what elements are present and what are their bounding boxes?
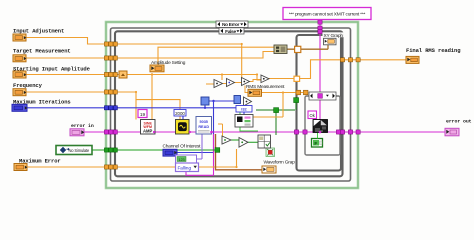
- tunnel solid rms row: [296, 90, 301, 95]
- case selector No Error: [216, 21, 248, 28]
- icon waveform graph red: [266, 148, 275, 157]
- wire triangle row links: [206, 80, 261, 93]
- svg-text:123: 123: [178, 158, 184, 162]
- while loop (outer gray border): [115, 31, 343, 176]
- case structure False (gray border): [111, 28, 351, 181]
- function triangle T6: [239, 138, 248, 148]
- svg-text:Frequency: Frequency: [13, 82, 43, 89]
- wire maximum iterations (blue): [27, 107, 236, 109]
- wire simulate boolean: [92, 149, 218, 151]
- wire blue vertical channel: [177, 101, 214, 153]
- svg-text:READ: READ: [198, 125, 209, 129]
- tunnels left border row1: [104, 42, 360, 169]
- terminal RMS Measurement: [248, 89, 262, 96]
- case structure No Error (green border): [106, 22, 358, 188]
- boolean constant F: [312, 139, 323, 148]
- tunnel ring xy cluster: [294, 46, 308, 94]
- svg-text:Ok: Ok: [310, 113, 316, 118]
- terminal Starting Input Amplitude: [13, 71, 26, 78]
- svg-text:error in: error in: [71, 123, 94, 129]
- terminal Input Adjustment: [13, 34, 26, 41]
- terminal Final RMS reading: [406, 56, 419, 63]
- function triangle T1: [214, 80, 223, 88]
- junction dots orange: [135, 43, 284, 168]
- wire F constant stub: [317, 133, 319, 139]
- terminal Frequency: [13, 89, 26, 96]
- svg-text:2000: 2000: [175, 111, 185, 116]
- terminal XY Graph: [324, 38, 337, 45]
- tunnels final rms right: [340, 58, 344, 62]
- terminal Waveform Graph: [262, 166, 276, 173]
- wire waveform brown: [216, 134, 263, 170]
- svg-text:XY Graph: XY Graph: [324, 33, 344, 39]
- terminal Maximum Iterations (I32): [12, 104, 27, 111]
- junction dot blue: [204, 100, 215, 109]
- svg-text:I32: I32: [241, 107, 247, 112]
- function triangle T4: [261, 75, 269, 83]
- wire input adjustment (orange): [26, 38, 242, 45]
- terminal error out: [445, 128, 459, 136]
- inner case selector: [309, 92, 336, 100]
- function triangle T7 blue row: [244, 97, 252, 106]
- numeric conversion box blue: [236, 106, 252, 113]
- svg-text:No Simulate: No Simulate: [69, 148, 91, 153]
- tunnels blue row: [104, 106, 117, 110]
- constant 2000: [174, 110, 186, 117]
- svg-text:Waveform Grap: Waveform Grap: [264, 159, 296, 165]
- tunnels row3: [104, 72, 108, 76]
- function triangle T3: [242, 78, 250, 86]
- wire trigger magenta: [186, 134, 214, 175]
- wire light green: [240, 112, 258, 131]
- vi icon function generator (yellow): [176, 120, 190, 135]
- function triangle T2: [227, 79, 235, 87]
- svg-text:False: False: [225, 29, 236, 35]
- svg-text:Target Measurement: Target Measurement: [13, 48, 71, 55]
- wire frequency: [26, 92, 180, 120]
- svg-text:Falling: Falling: [178, 166, 192, 171]
- vi icon SINE WFM AMP: [141, 120, 156, 135]
- inner while loop (right): [297, 35, 342, 171]
- inner case structure (error handler): [305, 96, 340, 155]
- tunnels maximum error row: [104, 165, 108, 169]
- wire blue vi out: [209, 100, 234, 102]
- node unbundle by name: [258, 135, 271, 148]
- node index array: [235, 115, 253, 128]
- constant 19 (gpib address): [138, 110, 147, 118]
- wire branch to T4: [257, 75, 261, 81]
- wire frequency stub down: [135, 100, 137, 120]
- node bundle: [274, 45, 287, 54]
- wire rms terminal out: [253, 93, 303, 118]
- wire error in (magenta long run): [84, 131, 445, 133]
- wire error string vertical: [319, 20, 321, 120]
- function triangle T5: [222, 136, 231, 144]
- svg-text:19: 19: [140, 112, 146, 118]
- svg-text:No Error: No Error: [222, 22, 239, 28]
- constant Ok: [308, 111, 317, 119]
- tunnels row2: [104, 56, 108, 60]
- svg-text:5035: 5035: [199, 120, 207, 124]
- vi icon error handler: [313, 120, 328, 133]
- wire branch amplitude down to AMP vi: [151, 75, 153, 120]
- wire blue 2000 down: [183, 112, 244, 120]
- wire starting input amplitude: [26, 74, 257, 76]
- tunnels row4: [104, 90, 108, 94]
- svg-text:F: F: [314, 141, 317, 146]
- svg-text:Input Adjustment: Input Adjustment: [13, 28, 64, 35]
- wire purple ring: [196, 134, 202, 159]
- terminal Maximum Error: [14, 164, 27, 171]
- wire target measurement: [26, 52, 274, 59]
- tunnel hollow final rms: [294, 76, 300, 81]
- terminal Channel Of Interest: [163, 149, 177, 156]
- junction dots magenta: [153, 131, 321, 134]
- ring constant Falling: [176, 163, 199, 172]
- wire final rms reading: [269, 60, 407, 79]
- wire branch to T3: [241, 44, 243, 78]
- terminal Target Measurement: [13, 55, 26, 62]
- tunnels magenta vertical top: [318, 20, 322, 24]
- wire boolean compare chain: [231, 140, 258, 142]
- tunnel simulate green: [104, 98, 298, 153]
- string constant program cannot set XMIT current: [283, 8, 371, 20]
- terminal Amplitude Setting: [150, 65, 164, 72]
- wire t5 t6: [218, 124, 223, 136]
- wire branch to T2: [221, 75, 223, 81]
- wire bundle out to xy graph: [287, 45, 328, 49]
- svg-text:error out: error out: [446, 119, 472, 125]
- wire blue up to vi: [204, 105, 206, 108]
- vi icon blue small (array size): [201, 97, 209, 105]
- svg-text:*** program cannot set XMIT cu: *** program cannot set XMIT current ***: [289, 12, 366, 18]
- tunnels magenta error row: [104, 20, 360, 134]
- shift register box (starting amplitude): [119, 71, 127, 78]
- label XY Graph: [323, 32, 344, 38]
- constant cluster 123 trigger: [176, 155, 197, 163]
- wire boolean to unbundle: [256, 103, 296, 136]
- svg-text:Final RMS reading: Final RMS reading: [406, 47, 460, 54]
- vi icon scope READ: [196, 117, 212, 135]
- wire maximum error: [27, 149, 237, 167]
- wire amplitude setting to bundle: [158, 47, 274, 65]
- case selector False: [219, 28, 244, 35]
- boolean constant No Simulate: [56, 146, 92, 155]
- vi icon blue2: [234, 96, 241, 104]
- terminal error in: [70, 129, 84, 136]
- svg-text:Channel Of Interest: Channel Of Interest: [163, 144, 202, 150]
- svg-text:AMP: AMP: [143, 129, 153, 134]
